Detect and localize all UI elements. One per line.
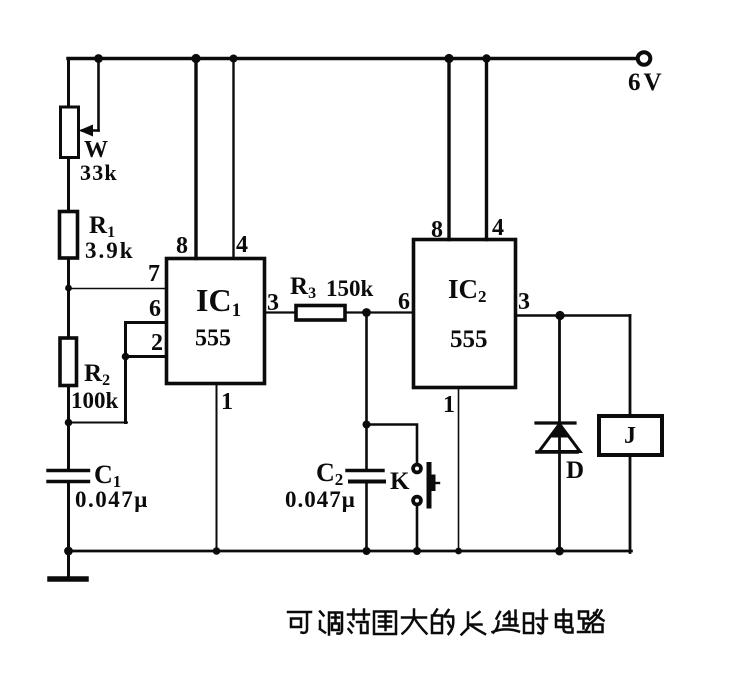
node dot IC2 pin1 at rail	[455, 548, 462, 555]
wire IC2 pin1 to ground rail	[458, 388, 460, 552]
wire junction down to C2	[365, 313, 368, 552]
timer IC2 555 box	[414, 240, 516, 388]
caption char 围	[374, 612, 396, 635]
svg-text:150k: 150k	[326, 276, 374, 301]
svg-text:2: 2	[151, 330, 163, 356]
resistor R3 150k	[290, 273, 374, 320]
wire IC2 pin3 output	[516, 314, 631, 317]
caption title 可调范围大的长延时电路 (hand-drawn strokes)	[288, 610, 604, 635]
diode D	[536, 316, 584, 552]
svg-text:3: 3	[518, 289, 530, 315]
node dot IC2 pin8 on rail	[444, 54, 453, 63]
switch K (pushbutton)	[390, 465, 439, 507]
svg-text:6V: 6V	[628, 69, 665, 96]
wire top power rail	[68, 57, 636, 60]
wire left vertical rail (supply to ground node)	[67, 59, 70, 552]
caption char 时	[524, 610, 547, 633]
node dot IC1 pin8 on rail	[191, 54, 200, 63]
terminal 6V	[628, 52, 665, 96]
wire bottom ground rail	[69, 550, 632, 553]
caption char 路	[578, 610, 604, 632]
svg-text:555: 555	[450, 326, 488, 353]
caption char 可	[288, 612, 311, 633]
capacitor C2 0.047u	[285, 458, 384, 512]
node dot C2/K branch	[363, 421, 371, 429]
svg-text:R1: R1	[89, 212, 115, 241]
caption char 电	[556, 610, 573, 633]
svg-text:8: 8	[176, 233, 188, 259]
wire from node to pins 2/6 drop line	[69, 422, 128, 424]
resistor R2 100k	[60, 338, 119, 413]
node dot diode branch	[555, 311, 564, 320]
wire IC1 pin8 to rail	[194, 59, 197, 259]
svg-text:D: D	[566, 457, 584, 484]
wire pin6/pin2 connection of IC1	[126, 323, 169, 423]
svg-text:1: 1	[443, 392, 455, 418]
svg-text:0.047μ: 0.047μ	[285, 487, 356, 512]
caption char 的	[432, 610, 453, 635]
caption char 大	[402, 610, 427, 634]
svg-text:1: 1	[221, 389, 233, 415]
node dot ground junction left	[64, 547, 73, 556]
node junction R2 bottom / C1 top	[65, 419, 73, 427]
svg-text:R3: R3	[290, 273, 316, 302]
svg-text:7: 7	[148, 261, 160, 287]
svg-text:6: 6	[398, 289, 410, 315]
svg-text:R2: R2	[84, 360, 110, 389]
wire branch to switch K	[367, 425, 418, 464]
wire IC1 pin4 to rail	[232, 59, 234, 259]
wire relay J to ground rail	[629, 455, 632, 553]
node dot IC1 pin1 at rail	[213, 547, 221, 555]
svg-text:K: K	[390, 468, 410, 495]
svg-text:555: 555	[195, 326, 231, 352]
wire IC2 pin8 to rail	[447, 59, 450, 240]
wire IC1 pin3 stub	[265, 311, 297, 313]
node dot K at rail	[413, 547, 421, 555]
caption char 范	[348, 610, 369, 634]
node junction R1/R2 to pin7	[65, 285, 72, 292]
caption char 长	[462, 612, 486, 635]
wire pin 7 of IC1	[69, 288, 167, 290]
node dot C2 at rail	[363, 547, 371, 555]
svg-text:4: 4	[492, 215, 504, 241]
svg-text:33k: 33k	[80, 160, 118, 185]
svg-text:8: 8	[431, 217, 443, 243]
wire IC1 pin1 to ground rail	[216, 384, 218, 552]
wire output down to relay J	[629, 316, 632, 417]
node dot diode at rail	[555, 547, 564, 556]
capacitor C1 0.047u	[48, 460, 149, 512]
wire IC2 pin4 to rail	[485, 59, 488, 240]
wire switch K to ground rail	[416, 505, 419, 551]
resistor R1 3.9k	[60, 212, 135, 264]
svg-text:3.9k: 3.9k	[85, 238, 135, 263]
svg-text:100k: 100k	[71, 388, 119, 413]
svg-text:C2: C2	[316, 458, 343, 489]
node dot IC2 pin4 on rail	[482, 54, 490, 62]
svg-text:0.047μ: 0.047μ	[75, 487, 149, 512]
node dot pin2 junction	[122, 353, 130, 361]
caption char 调	[320, 612, 342, 635]
ground	[50, 551, 86, 579]
potentiometer W 33k	[61, 59, 118, 186]
svg-text:4: 4	[236, 232, 248, 258]
svg-text:J: J	[624, 423, 636, 449]
node dot R3/C2 junction	[362, 308, 371, 317]
relay J	[599, 416, 662, 455]
wire R3 to IC2 pin6	[345, 311, 414, 313]
svg-text:6: 6	[149, 296, 161, 322]
node dot at W wiper on rail	[94, 54, 103, 63]
op-amp/timer IC1 555 box	[167, 259, 265, 384]
caption char 延	[493, 611, 520, 633]
node dot IC1 pin4 on rail	[230, 55, 238, 63]
